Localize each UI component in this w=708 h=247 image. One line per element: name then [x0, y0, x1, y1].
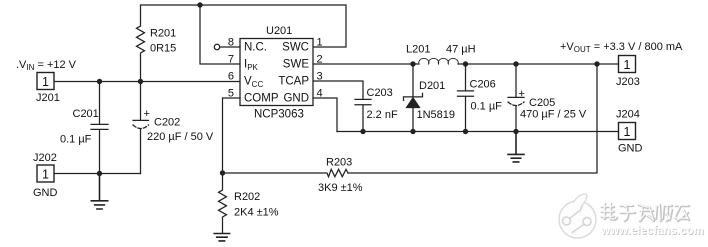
svg-text:+VOUT = +3.3 V / 800 mA: +VOUT = +3.3 V / 800 mA [560, 41, 683, 54]
svg-text:220 µF / 50 V: 220 µF / 50 V [147, 131, 214, 143]
wire feedback from output down and left to COMP node [348, 64, 597, 173]
node C206 bottom [463, 129, 468, 134]
ground R202 [214, 234, 229, 241]
diode D201 1N5819 [412, 64, 414, 132]
svg-text:.VIN = +12 V: .VIN = +12 V [16, 59, 77, 72]
svg-text:1: 1 [42, 168, 49, 182]
svg-text:1: 1 [624, 58, 631, 72]
svg-text:N.C.: N.C. [244, 42, 267, 54]
svg-text:4: 4 [317, 88, 323, 100]
svg-text:TCAP: TCAP [278, 76, 309, 88]
node C201 bottom / ground [97, 171, 102, 176]
svg-text:J201: J201 [36, 92, 60, 104]
node C205 top [513, 61, 518, 66]
wire GND pin4 to bottom rail [314, 98, 338, 132]
capacitor C205 [508, 64, 524, 132]
svg-text:0.1 µF: 0.1 µF [60, 134, 92, 146]
svg-text:2.2 nF: 2.2 nF [367, 109, 398, 121]
inductor L201 [419, 58, 458, 64]
node C201 top [97, 79, 102, 84]
node output J203 [594, 61, 599, 66]
wire VIN rail J201 to VCC pin6 [54, 81, 240, 83]
node feedback divider [220, 170, 225, 175]
svg-text:0R15: 0R15 [150, 43, 176, 55]
svg-text:5: 5 [228, 88, 234, 100]
svg-text:2: 2 [317, 54, 323, 66]
wire output rail L201 to J203 [458, 63, 619, 65]
wire TCAP pin3 to C203 [314, 81, 364, 99]
svg-text:6: 6 [228, 71, 234, 83]
svg-text:D201: D201 [419, 80, 445, 92]
svg-text:1: 1 [624, 125, 631, 139]
node D201 bottom [410, 129, 415, 134]
svg-text:GND: GND [618, 143, 643, 155]
wire GND input rail [54, 173, 141, 175]
connector J203 [619, 56, 636, 73]
capacitor C206 [458, 64, 474, 132]
capacitor C202 [133, 82, 149, 174]
svg-text:8: 8 [228, 37, 234, 49]
wire IPK pin7 from top rail [200, 5, 240, 64]
resistor R203 [223, 169, 349, 176]
resistor R201 [137, 26, 145, 82]
svg-text:C203: C203 [367, 87, 393, 99]
svg-text:0.1 µF: 0.1 µF [471, 101, 503, 113]
wire top rail from R201 top to SWC drop [141, 5, 347, 47]
ground input [91, 174, 107, 210]
watermark chinese text [602, 204, 689, 221]
node C205 bottom [513, 129, 518, 134]
svg-text:3K9 ±1%: 3K9 ±1% [318, 182, 363, 194]
wire SWE rail pin2 to L201 [314, 63, 420, 65]
capacitor C201 [91, 82, 108, 174]
connector J202 [37, 165, 54, 182]
pin 8 open circle [214, 44, 219, 49]
resistor R202 [219, 173, 227, 233]
svg-text:C206: C206 [470, 79, 496, 91]
connector J201 [37, 73, 54, 90]
svg-text:2K4 ±1%: 2K4 ±1% [234, 207, 279, 219]
svg-text:R201: R201 [150, 28, 176, 40]
svg-text:C201: C201 [73, 108, 99, 120]
node D201 top [410, 61, 415, 66]
svg-text:+: + [519, 88, 525, 100]
svg-text:1N5819: 1N5819 [417, 109, 456, 121]
svg-text:www.elecfans.com: www.elecfans.com [600, 225, 703, 237]
svg-text:GND: GND [33, 187, 58, 199]
capacitor C203 [355, 99, 371, 131]
connector J204 [619, 123, 636, 140]
svg-text:R202: R202 [234, 191, 260, 203]
svg-text:J203: J203 [616, 76, 640, 88]
IC U201 NCP3063 body [240, 39, 313, 106]
svg-text:SWE: SWE [283, 59, 310, 71]
wire COMP pin5 down to feedback node [223, 98, 241, 173]
wire bottom ground rail [337, 131, 619, 133]
svg-text:U201: U201 [266, 25, 292, 37]
watermark logo [559, 194, 596, 238]
svg-text:+: + [144, 108, 150, 120]
svg-text:GND: GND [283, 93, 309, 105]
svg-text:J202: J202 [33, 152, 57, 164]
svg-text:NCP3063: NCP3063 [254, 109, 304, 121]
node C203 bottom [360, 129, 365, 134]
svg-text:7: 7 [228, 54, 234, 66]
svg-text:470 µF / 25 V: 470 µF / 25 V [520, 109, 587, 121]
svg-text:J204: J204 [616, 109, 640, 121]
svg-text:1: 1 [42, 75, 49, 89]
svg-text:3: 3 [317, 71, 323, 83]
svg-text:SWC: SWC [282, 42, 309, 54]
ground output [508, 132, 524, 162]
svg-text:C202: C202 [154, 117, 180, 129]
svg-text:C205: C205 [529, 97, 555, 109]
svg-text:L201: L201 [406, 44, 430, 56]
svg-text:1: 1 [317, 37, 323, 49]
node top-rail / IPK junction [197, 2, 202, 7]
svg-text:47 µH: 47 µH [446, 44, 476, 56]
svg-text:COMP: COMP [244, 93, 279, 105]
node C206 top [463, 61, 468, 66]
node R201/C202 [138, 79, 143, 84]
svg-text:R203: R203 [326, 157, 352, 169]
